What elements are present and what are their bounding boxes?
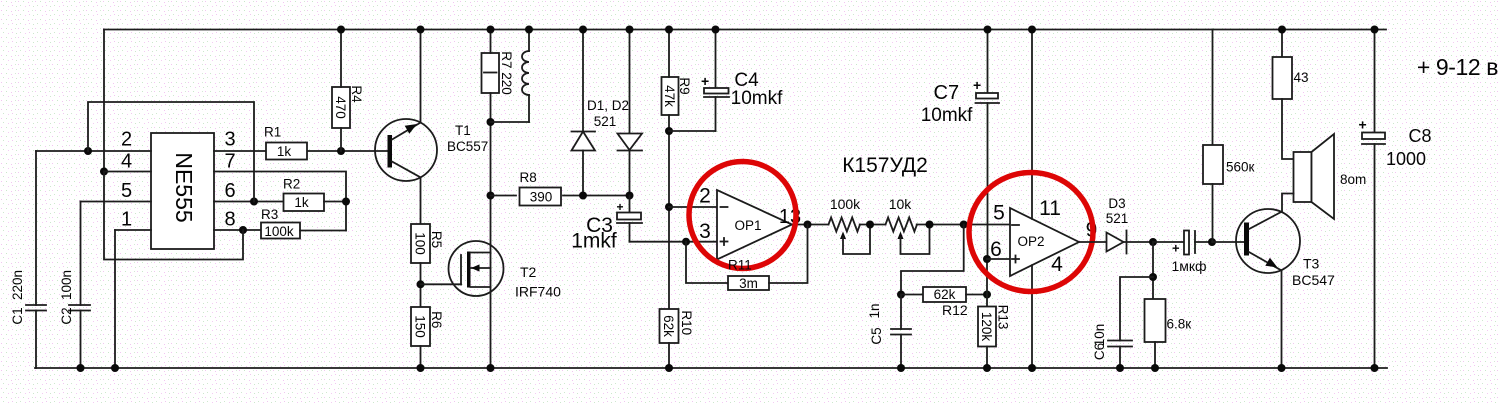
svg-text:1мкф: 1мкф [1171,258,1206,274]
transistor T3 BC547 [1236,209,1300,273]
node: pin1 ground [111,364,119,372]
diode D3 [1107,231,1154,254]
node: trimmer2 right [926,221,934,229]
wire: R2 right [324,201,346,203]
svg-text:470: 470 [333,96,348,119]
resistor 560k [1203,145,1223,184]
svg-text:47k: 47k [662,85,677,107]
wire: T2 drain/source vertical [490,196,492,369]
wire: pin 8 stub [214,229,261,231]
svg-text:T3: T3 [1303,256,1320,272]
transistor T1 BC557 [375,119,437,181]
svg-text:100k: 100k [830,196,861,212]
node: drain row junction [487,192,495,200]
wire: OP2 supply pin 4 [1031,265,1033,368]
node: OP2 supply ground [1028,364,1036,372]
svg-text:BC547: BC547 [1292,272,1335,288]
node: C8 ground [1371,364,1379,372]
trimmer 100k zigzag [829,218,860,232]
svg-text:R4: R4 [349,85,364,103]
svg-text:R13: R13 [996,305,1011,330]
wire: R12 left [901,294,923,296]
IC U1 NE555 label [171,152,197,222]
wire: pin 3 stub [214,150,265,152]
svg-text:T1: T1 [455,123,471,138]
wire: gate wire [421,283,462,285]
node: coil rail [525,26,533,34]
wire: OP1 output [792,224,829,226]
svg-text:1k: 1k [294,195,309,210]
wire: D3 node to cap [1153,241,1184,243]
wire: T1 emitter to rail [420,30,422,123]
svg-text:OP1: OP1 [734,218,761,233]
node: R12/R13 junction [983,291,991,299]
svg-text:+: + [1359,117,1367,133]
svg-text:+: + [1172,241,1180,256]
svg-text:К157УД2: К157УД2 [842,154,928,177]
wire: 560k top [1212,30,1214,146]
svg-text:R12: R12 [942,302,968,318]
trimmer 10k zigzag [886,218,917,232]
wire: R4 top [340,30,342,88]
svg-text:2: 2 [121,129,132,151]
wire: R9 top [668,30,670,78]
label C1 [10,307,25,324]
node: C6/6.8k junction [1149,273,1157,281]
wire: trimmer link [860,224,886,226]
inductor L coil [522,30,529,123]
node: gate junction [417,280,425,288]
svg-text:6: 6 [990,238,1002,261]
wire: 43 to speaker [1282,99,1294,159]
svg-text:10mkf: 10mkf [921,105,973,126]
label C5 [869,327,884,344]
svg-text:C1: C1 [10,307,25,324]
svg-text:C2: C2 [59,307,74,324]
label 10n [1092,324,1107,347]
svg-text:BC557: BC557 [447,139,488,154]
svg-text:1n: 1n [867,303,882,318]
resistor R11 3m feedback [686,225,808,291]
svg-text:R6: R6 [429,311,444,328]
op-amp OP1 [717,190,792,260]
svg-text:62k: 62k [934,287,956,302]
svg-text:5: 5 [993,202,1005,225]
wire: 6.8k to ground [1154,342,1156,368]
label 220n [10,270,25,300]
wire: pin6 stub [987,258,1010,260]
svg-text:521: 521 [1106,211,1129,226]
wire: pin 4 stub [104,171,151,173]
node: C7 rail [984,26,992,34]
wire: +V top rail [104,29,1386,31]
svg-text:+: + [701,73,709,89]
wire: OP2 output [1079,241,1107,243]
node: C5/R12 junction [897,291,905,299]
wire: R7 to coil bottom [491,121,530,123]
wire: pin 5 stub [81,201,152,203]
red marker circle around OP1 [689,162,796,269]
node: R1/R4 junction [337,147,345,155]
node: R6 ground [417,364,425,372]
wire: to C6 [1120,277,1153,341]
capacitor C8 [1359,30,1386,369]
resistor R12 [923,287,966,302]
svg-text:+ 9-12 в: + 9-12 в [1417,54,1498,80]
node: C4 junction [665,127,673,135]
node: T3 base junction [1208,238,1216,246]
wire: pin5 tap down to C5/R12 [901,225,964,295]
node: R2/pin7 vertical junction [342,198,350,206]
label C6 [1092,343,1107,360]
wire: D3 node down [1152,242,1154,299]
wire: R3 right [300,230,346,232]
svg-text:3: 3 [224,129,235,151]
svg-text:1: 1 [121,209,132,231]
node: OP2 supply rail [1028,26,1036,34]
wire: pin 2 row [36,150,151,152]
wire: OP2 supply pin 11 [1031,30,1033,219]
resistor R3 [261,223,300,239]
wire: T1 collector down [420,177,422,224]
resistor R9 [662,77,679,115]
capacitor C3 [617,196,643,242]
node: pin8 junction [239,226,247,234]
svg-text:43: 43 [1294,70,1309,85]
resistor R5 [411,224,430,263]
resistor R7 [482,53,500,93]
diode D1 [572,30,596,196]
wire: R8 right to D1/D2 [563,195,630,197]
node: R13 ground [983,364,991,372]
node: D2/C3 junction [626,192,634,200]
op-amp OP2 [1010,208,1079,276]
svg-text:7: 7 [224,151,235,173]
wire: trimmer2 to OP2 pin5 [917,224,1010,226]
svg-text:R3: R3 [261,207,278,222]
svg-text:NE555: NE555 [171,152,197,222]
node: C4 rail [712,26,720,34]
node: pin6 junction [250,198,258,206]
svg-text:220n: 220n [10,270,25,300]
svg-text:2: 2 [699,185,711,208]
node: pin5 tap junction [960,221,968,229]
wire: pin6 vertical [986,259,988,307]
wire: pin1 to ground [114,230,116,368]
resistor R6 [411,307,430,346]
wire: R9 bottom to R10 [668,115,670,309]
svg-text:C5: C5 [869,327,884,344]
svg-text:R10: R10 [679,310,694,335]
resistor R4 [332,87,350,128]
svg-text:C8: C8 [1408,126,1431,146]
node: R4 top rail [337,26,345,34]
IC U1 NE555 body [151,133,214,249]
svg-text:1k: 1k [277,144,292,159]
wire: R7 top stub [490,30,492,54]
svg-text:100n: 100n [59,270,74,300]
svg-text:R1: R1 [264,125,281,140]
node: T1 emitter rail [417,26,425,34]
node: 43 rail [1278,26,1286,34]
svg-text:390: 390 [530,190,553,205]
svg-text:560к: 560к [1226,160,1255,175]
svg-text:D3: D3 [1108,196,1125,211]
wire: pin2-pin6 bracket [88,102,254,202]
node: pin6 junction [983,255,991,263]
svg-text:11: 11 [1039,197,1061,220]
node: D3 output junction [1149,238,1157,246]
svg-text:1000: 1000 [1386,149,1426,169]
svg-text:521: 521 [594,114,617,129]
svg-text:IRF740: IRF740 [515,284,561,300]
svg-text:10mkf: 10mkf [731,88,783,109]
svg-text:1mkf: 1mkf [571,230,617,253]
wire: C3 to OP1 pin3 [630,241,718,243]
capacitor C4 [669,30,729,132]
red marker circle around OP2 [969,173,1093,292]
wire: R1 to T1 base [308,150,388,152]
trimmer 100k wiper [840,225,870,255]
svg-text:T2: T2 [520,264,537,280]
node: 6.8k ground [1151,364,1159,372]
wire: pin 1 stub [115,229,151,231]
wire: speaker to T3 collector [1282,194,1294,212]
svg-text:62k: 62k [661,315,676,337]
svg-text:5: 5 [121,180,132,202]
wire: pin2 row to OP1 [669,206,717,208]
node: C6 ground [1116,364,1124,372]
capacitor C1 [26,151,46,368]
wire: T3 base wire [1212,241,1244,243]
node: pin2 junction [665,203,673,211]
svg-text:120k: 120k [979,312,994,342]
trimmer 10k wiper [898,225,930,255]
node: T2 source ground [487,364,495,372]
resistor R2 [284,194,325,212]
wire: T3 emitter to ground [1281,271,1283,369]
resistor R8 [520,188,562,206]
label 1n [867,303,882,318]
svg-text:6.8к: 6.8к [1167,317,1192,332]
svg-text:R5: R5 [429,231,444,248]
resistor R10 [660,309,679,343]
transistor T2 IRF740 [449,241,504,296]
wire: R6 to ground [420,346,422,368]
node: OP1 output junction [804,221,812,229]
svg-text:OP2: OP2 [1017,234,1044,249]
node: C8 rail [1371,26,1379,34]
speaker 8om [1294,134,1335,219]
svg-text:C7: C7 [934,82,960,104]
svg-text:+: + [973,77,981,93]
node: pin4 junction [100,168,108,176]
resistor 43 [1273,57,1293,99]
wire: pin 6 stub [214,201,282,203]
capacitor C6 [1108,341,1132,369]
svg-text:D1, D2: D1, D2 [587,98,629,113]
svg-text:8: 8 [224,209,235,231]
wire: ground bottom rail [35,367,1387,369]
wire: R7 bottom [490,93,492,196]
node: T3 emitter ground [1278,364,1286,372]
resistor R13 [978,307,996,347]
wire: V+ drop to pins 4/8 [103,30,105,172]
node: R10 ground [665,364,673,372]
node: trimmer1 right [866,221,874,229]
svg-text:100: 100 [413,232,428,255]
svg-text:4: 4 [1051,253,1063,276]
svg-text:R11: R11 [728,258,752,273]
svg-text:R2: R2 [283,177,300,192]
wire: R12 right [966,294,987,296]
capacitor C5 [891,295,911,369]
svg-text:3: 3 [699,220,711,243]
resistor 6.8k [1145,299,1166,342]
wire: pin8 to V+ loop [104,172,243,260]
svg-text:R9: R9 [677,77,692,94]
wire: R10 to ground [668,343,670,368]
node: R9 rail [665,26,673,34]
wire: R5 to R6 [420,263,422,307]
node: C2 ground [77,364,85,372]
wire: pin 7 row to R2/R3 junction [214,172,346,231]
node: D2 rail [626,26,634,34]
node: D1 bottom junction [579,192,587,200]
wire: R4 bottom [340,128,342,151]
svg-text:3m: 3m [739,276,758,291]
svg-text:R7 220: R7 220 [499,51,514,95]
svg-text:R8: R8 [520,170,537,185]
svg-text:100k: 100k [264,224,294,239]
resistor R1 [266,143,307,160]
svg-text:C6: C6 [1092,343,1107,360]
capacitor C2 [69,202,90,369]
wire: 43 resistor top [1281,30,1283,58]
node: pin3 feedback junction [682,238,690,246]
svg-text:4: 4 [121,151,132,173]
capacitor 1mkf coupling [1172,231,1212,256]
node: R7/L junction [487,118,495,126]
svg-text:6: 6 [224,180,235,202]
label C2 [59,307,74,324]
node: R7 rail [487,26,495,34]
svg-text:10k: 10k [889,196,913,212]
wire: R13 to ground [986,347,988,369]
capacitor C7 [973,30,999,260]
svg-text:150: 150 [413,315,428,338]
wire: drain row to R8 [491,195,517,197]
diode D2 [618,30,643,196]
node: pin2/C1 junction [84,147,92,155]
node: D1 rail [579,26,587,34]
wire: 560k bottom [1212,184,1214,242]
svg-text:8om: 8om [1340,172,1366,187]
node: C5 ground [897,364,905,372]
label 100n [59,270,74,300]
